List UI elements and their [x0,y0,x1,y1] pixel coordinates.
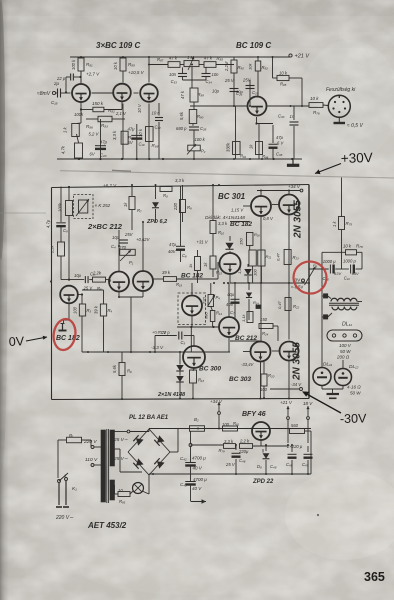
svg-text:330k: 330k [226,142,231,152]
svg-text:39 k: 39 k [94,305,99,314]
svg-text:+21 V: +21 V [295,54,311,60]
svg-text:R₇₅: R₇₅ [346,221,353,226]
svg-text:10p: 10p [112,235,120,240]
svg-text:C₂₈: C₂₈ [252,90,259,95]
svg-text:+34 V: +34 V [210,399,223,404]
svg-text:C₄₃: C₄₃ [180,482,187,487]
svg-text:R₉₃: R₉₃ [119,499,126,504]
svg-text:R₇₉: R₇₉ [219,448,225,453]
svg-text:-34 V: -34 V [291,382,302,387]
svg-text:2N 3055: 2N 3055 [293,200,304,239]
svg-text:B₂: B₂ [194,417,199,422]
svg-text:100: 100 [253,269,258,276]
svg-text:40V: 40V [226,302,235,307]
svg-text:R₁₀: R₁₀ [218,230,224,235]
svg-text:C₅: C₅ [181,340,186,345]
svg-text:ZPD 22: ZPD 22 [252,479,274,485]
svg-text:+10,5 V: +10,5 V [128,70,145,75]
svg-text:680: 680 [204,312,209,319]
svg-text:220 V: 220 V [83,439,97,445]
svg-text:0,47: 0,47 [276,252,281,261]
svg-text:BC 109 C: BC 109 C [236,41,271,50]
svg-text:2,2M: 2,2M [224,61,229,72]
svg-text:K₁: K₁ [72,486,77,492]
svg-text:0V: 0V [8,334,25,349]
svg-text:R₈₈: R₈₈ [152,143,159,148]
svg-text:10μ: 10μ [212,89,220,94]
svg-text:25 V: 25 V [224,78,235,83]
svg-text:R₁₄: R₁₄ [253,300,259,305]
svg-text:220: 220 [173,202,178,211]
svg-text:18 V: 18 V [303,401,313,406]
svg-text:BC 182: BC 182 [181,273,203,280]
svg-text:C₁₈: C₁₈ [51,100,58,105]
svg-text:P₁: P₁ [129,260,134,265]
svg-text:R₄: R₄ [108,308,113,313]
svg-text:1 k: 1 k [63,127,68,133]
svg-text:47 k: 47 k [169,56,178,61]
svg-text:100 k: 100 k [71,59,76,70]
svg-text:40V: 40V [168,249,177,254]
svg-text:5,6k: 5,6k [179,111,184,120]
svg-text:BC 301: BC 301 [218,192,246,201]
svg-text:R₈₇: R₈₇ [157,57,164,62]
svg-text:R₁₅: R₁₅ [216,270,222,275]
svg-text:+30V: +30V [341,150,373,166]
svg-text:150 k: 150 k [92,101,104,106]
svg-text:R₉₁: R₉₁ [240,154,247,159]
svg-text:4,7k: 4,7k [61,145,66,154]
svg-text:5,2 V: 5,2 V [89,132,100,137]
svg-text:R₁₈: R₁₈ [176,282,182,287]
svg-text:10μ: 10μ [74,273,82,278]
svg-text:10 V: 10 V [137,103,142,113]
svg-text:R₉₆: R₉₆ [262,154,269,159]
svg-text:100 k: 100 k [195,137,206,142]
svg-text:560: 560 [291,423,299,428]
svg-text:63V: 63V [334,271,341,276]
svg-text:0,8 V: 0,8 V [263,216,274,221]
svg-text:Feszültség ki: Feszültség ki [326,87,356,93]
svg-text:3,3 k: 3,3 k [112,130,117,140]
svg-text:10n: 10n [169,72,177,77]
svg-text:+21 V: +21 V [280,400,293,405]
svg-text:100k: 100k [58,202,63,212]
svg-text:R₈₃: R₈₃ [101,123,108,128]
svg-text:-33,4V: -33,4V [241,362,255,367]
svg-text:47 k: 47 k [204,56,213,61]
svg-text:R₈₁: R₈₁ [86,62,93,67]
svg-text:P₄: P₄ [216,295,221,300]
svg-text:BC 182: BC 182 [230,221,252,228]
svg-text:3×BC 109 C: 3×BC 109 C [96,41,140,50]
svg-text:R₇: R₇ [137,208,142,213]
svg-text:R₈: R₈ [163,193,168,198]
svg-text:R₈₆: R₈₆ [86,124,93,129]
svg-text:+2,7 V: +2,7 V [86,72,100,77]
svg-text:C₂₀: C₂₀ [100,153,107,158]
svg-text:22 p: 22 p [56,76,66,81]
svg-text:220 V∼: 220 V∼ [55,515,74,521]
svg-text:25 V∼: 25 V∼ [113,456,128,462]
svg-text:47μ: 47μ [100,140,108,145]
svg-text:200 Ω: 200 Ω [336,355,350,360]
svg-text:5,6k: 5,6k [112,364,117,373]
svg-text:R₁₃: R₁₃ [198,378,204,383]
svg-text:680 p: 680 p [176,126,187,131]
svg-text:R₇₈: R₇₈ [356,244,363,249]
svg-text:-30V: -30V [340,412,367,426]
svg-text:DL₁₁: DL₁₁ [323,362,333,368]
svg-text:≈8mV: ≈8mV [37,91,51,97]
svg-text:50 W: 50 W [340,349,351,354]
svg-text:25V: 25V [124,232,134,237]
svg-text:63V: 63V [352,271,359,276]
svg-text:220: 220 [202,297,207,305]
svg-text:PL 12 BA AE1: PL 12 BA AE1 [129,415,169,421]
svg-text:10n: 10n [212,72,220,77]
svg-text:R₇₆: R₇₆ [313,110,320,115]
svg-text:2×1N 4148: 2×1N 4148 [157,392,186,398]
svg-text:C₄₂: C₄₂ [180,456,187,461]
svg-text:10: 10 [118,488,123,493]
svg-text:C₄₇: C₄₇ [302,462,309,467]
svg-text:4-16 Ω: 4-16 Ω [347,385,361,390]
svg-text:P₂: P₂ [201,149,206,154]
svg-text:C₃₄: C₃₄ [206,79,213,84]
svg-text:R₈₈: R₈₈ [217,56,224,61]
svg-text:2×BC 212: 2×BC 212 [87,222,123,231]
svg-text:R₂₀: R₂₀ [268,373,275,378]
svg-text:R₈₂: R₈₂ [108,108,115,113]
svg-text:C₃₀: C₃₀ [278,114,285,119]
svg-text:100: 100 [73,306,78,314]
svg-text:3,3 k: 3,3 k [175,178,185,183]
svg-text:3,3 k: 3,3 k [218,221,228,226]
svg-text:10 k: 10 k [310,96,319,101]
svg-text:C₃₈: C₃₈ [276,152,283,157]
svg-text:25 V: 25 V [225,462,236,467]
svg-text:C₄₆: C₄₆ [239,458,246,463]
svg-text:C₃₃: C₃₃ [171,79,178,84]
svg-text:R₆: R₆ [127,369,132,374]
svg-text:2,1 V: 2,1 V [115,111,127,116]
svg-text:R₂₂: R₂₂ [293,304,300,309]
svg-text:1n: 1n [290,114,295,119]
svg-text:110 V: 110 V [85,457,98,463]
svg-text:1 M: 1 M [187,55,194,60]
svg-text:47μ: 47μ [276,135,284,140]
svg-text:+6,2 V: +6,2 V [103,183,117,188]
svg-text:1,2k: 1,2k [237,265,242,274]
svg-text:100k: 100k [74,112,84,117]
svg-text:DL₁₂: DL₁₂ [349,364,359,370]
svg-text:40 V: 40 V [193,466,203,471]
svg-text:C₄₈: C₄₈ [270,464,277,469]
svg-text:47μ: 47μ [128,127,136,132]
svg-text:BC 303: BC 303 [229,376,251,383]
svg-text:R₉₁: R₉₁ [233,421,240,426]
svg-text:3,3 k: 3,3 k [224,439,234,444]
svg-text:25V: 25V [242,78,252,83]
svg-text:R₉₃: R₉₃ [262,65,269,70]
svg-text:47 k: 47 k [180,90,185,99]
svg-text:10 n: 10 n [152,111,161,116]
svg-text:10 k: 10 k [113,61,118,70]
svg-text:1,15 V: 1,15 V [231,208,244,213]
svg-text:365: 365 [364,570,385,584]
svg-text:4,7μ: 4,7μ [46,219,51,228]
svg-text:R₈₅: R₈₅ [128,62,135,67]
svg-text:10 k: 10 k [343,244,352,249]
svg-text:ZPD 6,2: ZPD 6,2 [146,219,167,225]
svg-text:AET 453/2: AET 453/2 [87,521,127,530]
svg-text:+0,85 V: +0,85 V [152,330,166,335]
svg-text:BC 300: BC 300 [199,366,221,373]
svg-text:2,2k: 2,2k [50,244,55,254]
svg-text:R₂₃: R₂₃ [293,255,300,260]
svg-text:2,2k: 2,2k [92,271,102,276]
svg-text:47μ: 47μ [169,242,177,247]
svg-text:C₂₂: C₂₂ [155,125,162,130]
svg-text:150: 150 [239,238,244,245]
svg-text:1000 μ: 1000 μ [343,259,356,264]
svg-text:+31 V: +31 V [197,240,209,245]
svg-text:100: 100 [222,422,230,427]
svg-text:1,1k: 1,1k [241,313,246,322]
svg-text:39 k: 39 k [162,270,171,275]
svg-text:R₃: R₃ [87,308,92,313]
svg-text:B₁: B₁ [69,433,74,438]
svg-text:C₄: C₄ [111,244,116,249]
svg-text:+34 V: +34 V [288,184,301,189]
svg-text:R₂₄: R₂₄ [262,331,269,336]
svg-text:C₁₉: C₁₉ [139,142,145,147]
svg-text:DL₁₁: DL₁₁ [342,322,352,328]
svg-text:R₉₅: R₉₅ [280,82,287,87]
svg-text:C₄₉: C₄₉ [286,462,293,467]
svg-text:R₁₆: R₁₆ [254,232,260,237]
svg-text:0,47: 0,47 [277,300,282,309]
svg-text:10μ: 10μ [236,89,243,94]
svg-text:10 k: 10 k [279,71,288,76]
svg-text:D₈: D₈ [257,464,262,469]
svg-text:1000 μ: 1000 μ [323,259,336,264]
svg-text:C₄₁: C₄₁ [344,276,351,281]
svg-text:-3,3 V: -3,3 V [151,345,164,350]
svg-text:R₈₉: R₈₉ [198,92,205,97]
svg-text:R₉: R₉ [187,205,192,210]
svg-text:C₇: C₇ [230,310,235,315]
svg-text:220μ: 220μ [238,449,249,454]
svg-text:10k: 10k [248,63,253,70]
svg-text:≈ 0,5 V: ≈ 0,5 V [347,123,363,129]
svg-text:100 V: 100 V [339,343,352,348]
svg-text:C₃₅: C₃₅ [200,126,207,131]
svg-text:2,2 k: 2,2 k [239,439,250,444]
svg-text:25 V∼: 25 V∼ [113,437,128,443]
svg-text:4700 μ: 4700 μ [193,477,207,482]
svg-text:BFY 46: BFY 46 [242,411,266,418]
svg-text:R₁₄: R₁₄ [216,311,222,316]
svg-text:R₂₁: R₂₁ [266,254,272,259]
svg-text:1 k: 1 k [332,221,337,227]
svg-text:R₉₀: R₉₀ [238,65,245,70]
svg-text:150: 150 [260,317,268,322]
svg-text:40μ: 40μ [227,292,235,297]
svg-text:4700 μ: 4700 μ [192,456,206,461]
svg-text:50 W: 50 W [350,391,361,396]
svg-text:C₆: C₆ [182,253,187,258]
svg-text:C₉: C₉ [63,228,68,233]
svg-text:R₉₀: R₉₀ [197,114,204,119]
svg-text:2N 3055: 2N 3055 [292,342,303,381]
svg-text:40 V: 40 V [192,486,202,491]
svg-text:× K 252: × K 252 [95,203,111,208]
svg-text:2μ: 2μ [53,81,60,86]
